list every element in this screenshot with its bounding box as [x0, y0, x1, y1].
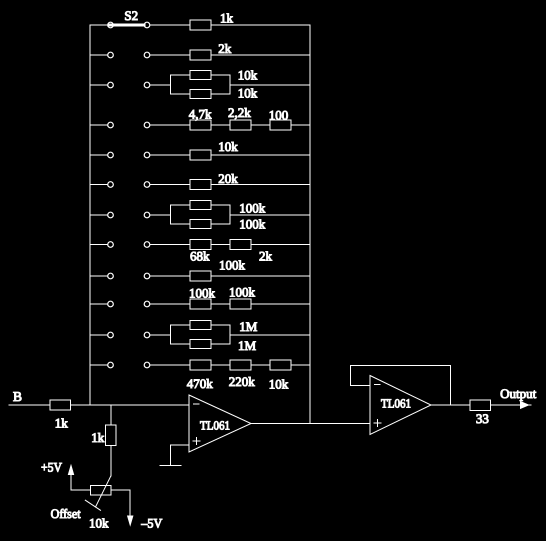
- switch S2 position 12 contacts: [90, 362, 150, 368]
- svg-text:2k: 2k: [218, 41, 232, 56]
- value label 10k for R3a/R3b: [238, 85, 258, 100]
- value label 100k for R10a/R10b: [189, 286, 216, 301]
- wire: U1 non-inverting input to ground: [171, 445, 190, 466]
- svg-text:1k: 1k: [91, 430, 105, 445]
- svg-text:2,2k: 2,2k: [228, 105, 251, 120]
- svg-text:Offset: Offset: [51, 506, 81, 521]
- value label 20k for R6: [218, 171, 238, 186]
- value label 33 for R15: [476, 411, 489, 426]
- wire: U2 output to R15: [431, 404, 470, 406]
- svg-text:100: 100: [269, 108, 289, 123]
- resistor R2 (2k): [150, 50, 310, 60]
- value label 2k for R2: [218, 41, 232, 56]
- svg-text:1k: 1k: [55, 416, 69, 431]
- svg-text:470k: 470k: [187, 376, 214, 391]
- switch S2 position 3 contacts: [90, 82, 150, 88]
- svg-text:TL061: TL061: [381, 397, 411, 411]
- switch S2 position 9 contacts: [90, 273, 150, 279]
- svg-text:2k: 2k: [259, 249, 273, 264]
- value label 2k for R8a/R8b: [259, 249, 273, 264]
- node Output label: [500, 386, 536, 401]
- svg-text:10k: 10k: [238, 85, 258, 100]
- resistor R15 (33): [470, 400, 491, 411]
- wire: pot right terminal to -5V: [111, 490, 130, 516]
- wire: pot left terminal to +5V: [71, 473, 91, 490]
- svg-text:10k: 10k: [238, 68, 258, 83]
- svg-text:TL061: TL061: [200, 419, 230, 433]
- svg-text:10k: 10k: [218, 139, 238, 154]
- svg-text:1M: 1M: [238, 338, 257, 353]
- resistor R11a/R11b (1M 1M): [150, 321, 310, 349]
- resistor R5 (10k): [150, 150, 310, 160]
- value label 1M for R11a/R11b: [239, 319, 258, 334]
- value label 100k for R7a/R7b: [239, 201, 265, 216]
- resistor R13 (1k input): [50, 400, 71, 410]
- +5V supply arrow: [68, 466, 73, 475]
- wire: U2 feedback output to inverting input: [350, 365, 450, 405]
- resistor R4a/R4b/R4c (4,7k 2,2k 100): [150, 120, 310, 130]
- resistor R1 (1k): [150, 20, 310, 30]
- value label 2,2k for R4a/R4b/R4c: [228, 105, 251, 120]
- switch S2 position 10 contacts: [90, 301, 150, 307]
- svg-text:1M: 1M: [239, 319, 258, 334]
- potentiometer P1 Offset 10k: [85, 476, 111, 510]
- svg-text:100k: 100k: [239, 217, 265, 232]
- switch label S2: [124, 8, 138, 23]
- switch S2 position 11 contacts: [90, 332, 150, 338]
- value label 100k for R9: [219, 258, 246, 273]
- value label 10k for R12a/R12b/R12c: [269, 377, 289, 392]
- value label 1k for R14: [91, 430, 105, 445]
- wire: junction down to offset network: [110, 405, 112, 425]
- wire: U1 output to U2 non-inverting input: [251, 423, 370, 425]
- svg-text:20k: 20k: [218, 171, 238, 186]
- resistor R12a/R12b/R12c (470k 220k 10k): [150, 360, 310, 370]
- -5V supply arrow: [128, 516, 133, 525]
- wire: R15 to Output with arrow: [491, 402, 532, 409]
- value label 100k for R7a/R7b: [239, 217, 265, 232]
- supply label +5V: [41, 460, 63, 475]
- value label 68k for R8a/R8b: [190, 249, 210, 264]
- switch S2 position 7 contacts: [90, 212, 150, 218]
- svg-text:100k: 100k: [219, 258, 246, 273]
- svg-text:220k: 220k: [229, 374, 256, 389]
- svg-text:Output: Output: [500, 386, 536, 401]
- value label 10k for R5: [218, 139, 238, 154]
- svg-text:100k: 100k: [229, 285, 256, 300]
- switch S2 wiper (closed contact, position 1): [109, 24, 144, 27]
- value label 100 for R4a/R4b/R4c: [269, 108, 289, 123]
- switch S2 position 2 contacts: [90, 52, 150, 58]
- svg-text:10k: 10k: [89, 516, 109, 531]
- resistor R3a/R3b (10k 10k): [150, 71, 310, 99]
- switch S2 position 4 contacts: [90, 122, 150, 128]
- svg-text:B: B: [13, 389, 22, 404]
- value label 4,7k for R4a/R4b/R4c: [189, 107, 212, 122]
- value label 10k for R3a/R3b: [238, 68, 258, 83]
- svg-text:S2: S2: [124, 8, 138, 23]
- svg-text:10k: 10k: [269, 377, 289, 392]
- resistor R14 (1k offset, vertical): [106, 425, 117, 445]
- switch S2 position 1 contacts: [90, 22, 150, 28]
- supply label -5V: [140, 516, 163, 531]
- ground: [160, 465, 181, 467]
- value label 220k for R12a/R12b/R12c: [229, 374, 256, 389]
- wire: input B to U1 inverting input: [9, 404, 189, 406]
- resistor R9 (100k): [150, 271, 310, 281]
- value label 1M for R11a/R11b: [238, 338, 257, 353]
- value label 10k for P1: [89, 516, 109, 531]
- wire: R14 to potentiometer wiper: [110, 446, 112, 477]
- svg-text:1k: 1k: [220, 11, 234, 26]
- svg-text:–5V: –5V: [140, 516, 163, 531]
- op-amp U2 TL061: [370, 376, 431, 435]
- svg-text:+5V: +5V: [41, 460, 63, 475]
- value label 1k for R13: [55, 416, 69, 431]
- switch S2 position 5 contacts: [90, 152, 150, 158]
- svg-text:68k: 68k: [190, 249, 210, 264]
- resistor R10a/R10b (100k 100k): [150, 299, 310, 309]
- resistor R8a/R8b (68k 2k): [150, 240, 310, 250]
- node B (input) label: [13, 389, 22, 404]
- value label 470k for R12a/R12b/R12c: [187, 376, 214, 391]
- wire: left common bus of S2: [89, 25, 91, 405]
- svg-text:100k: 100k: [189, 286, 216, 301]
- label Offset: [51, 506, 81, 521]
- switch S2 position 8 contacts: [90, 242, 150, 248]
- resistor R6 (20k): [150, 180, 310, 190]
- svg-text:100k: 100k: [239, 201, 265, 216]
- resistor R7a/R7b (100k 100k): [150, 201, 310, 229]
- wire: right feedback bus to U1 output: [309, 25, 311, 424]
- value label 1k for R1: [220, 11, 234, 26]
- value label 100k for R10a/R10b: [229, 285, 256, 300]
- svg-text:4,7k: 4,7k: [189, 107, 212, 122]
- switch S2 position 6 contacts: [90, 182, 150, 188]
- svg-text:33: 33: [476, 411, 489, 426]
- op-amp U1 TL061: [189, 395, 251, 452]
